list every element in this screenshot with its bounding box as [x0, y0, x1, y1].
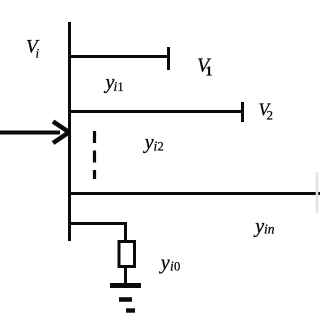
arrowhead of input current into bus [53, 122, 69, 144]
svg-text:0: 0 [174, 260, 180, 274]
svg-text:in: in [264, 222, 275, 237]
svg-text:1: 1 [118, 80, 124, 94]
terminal tick of branch 2 (node V2) [241, 102, 244, 122]
ground symbol: top bar [110, 283, 141, 288]
wire: branch 2 from bus [68, 110, 244, 113]
wire: shunt branch from bus to resistor [68, 224, 126, 242]
bus bar (node Vi) [68, 22, 71, 241]
dashed ellipsis line (omitted branches) [93, 131, 96, 179]
terminal tick of branch 1 (node V1) [167, 47, 170, 70]
svg-text:y: y [253, 216, 264, 238]
svg-text:2: 2 [267, 108, 274, 123]
svg-text:i: i [36, 46, 40, 61]
svg-text:y: y [159, 252, 170, 274]
svg-text:1: 1 [206, 64, 213, 79]
faint clipped tick at right edge [316, 172, 319, 213]
wire: resistor to ground [124, 266, 127, 284]
svg-text:y: y [143, 132, 154, 154]
wire: input current arrow shaft [0, 131, 60, 135]
ground symbol: bottom bar [126, 308, 135, 312]
wire: branch n from bus (long line to right edge) [68, 192, 320, 195]
wire: branch 1 from bus [68, 55, 170, 58]
resistor yi0 (shunt admittance box) [119, 242, 135, 267]
ground symbol: middle bar [119, 297, 132, 302]
svg-text:2: 2 [158, 140, 164, 154]
